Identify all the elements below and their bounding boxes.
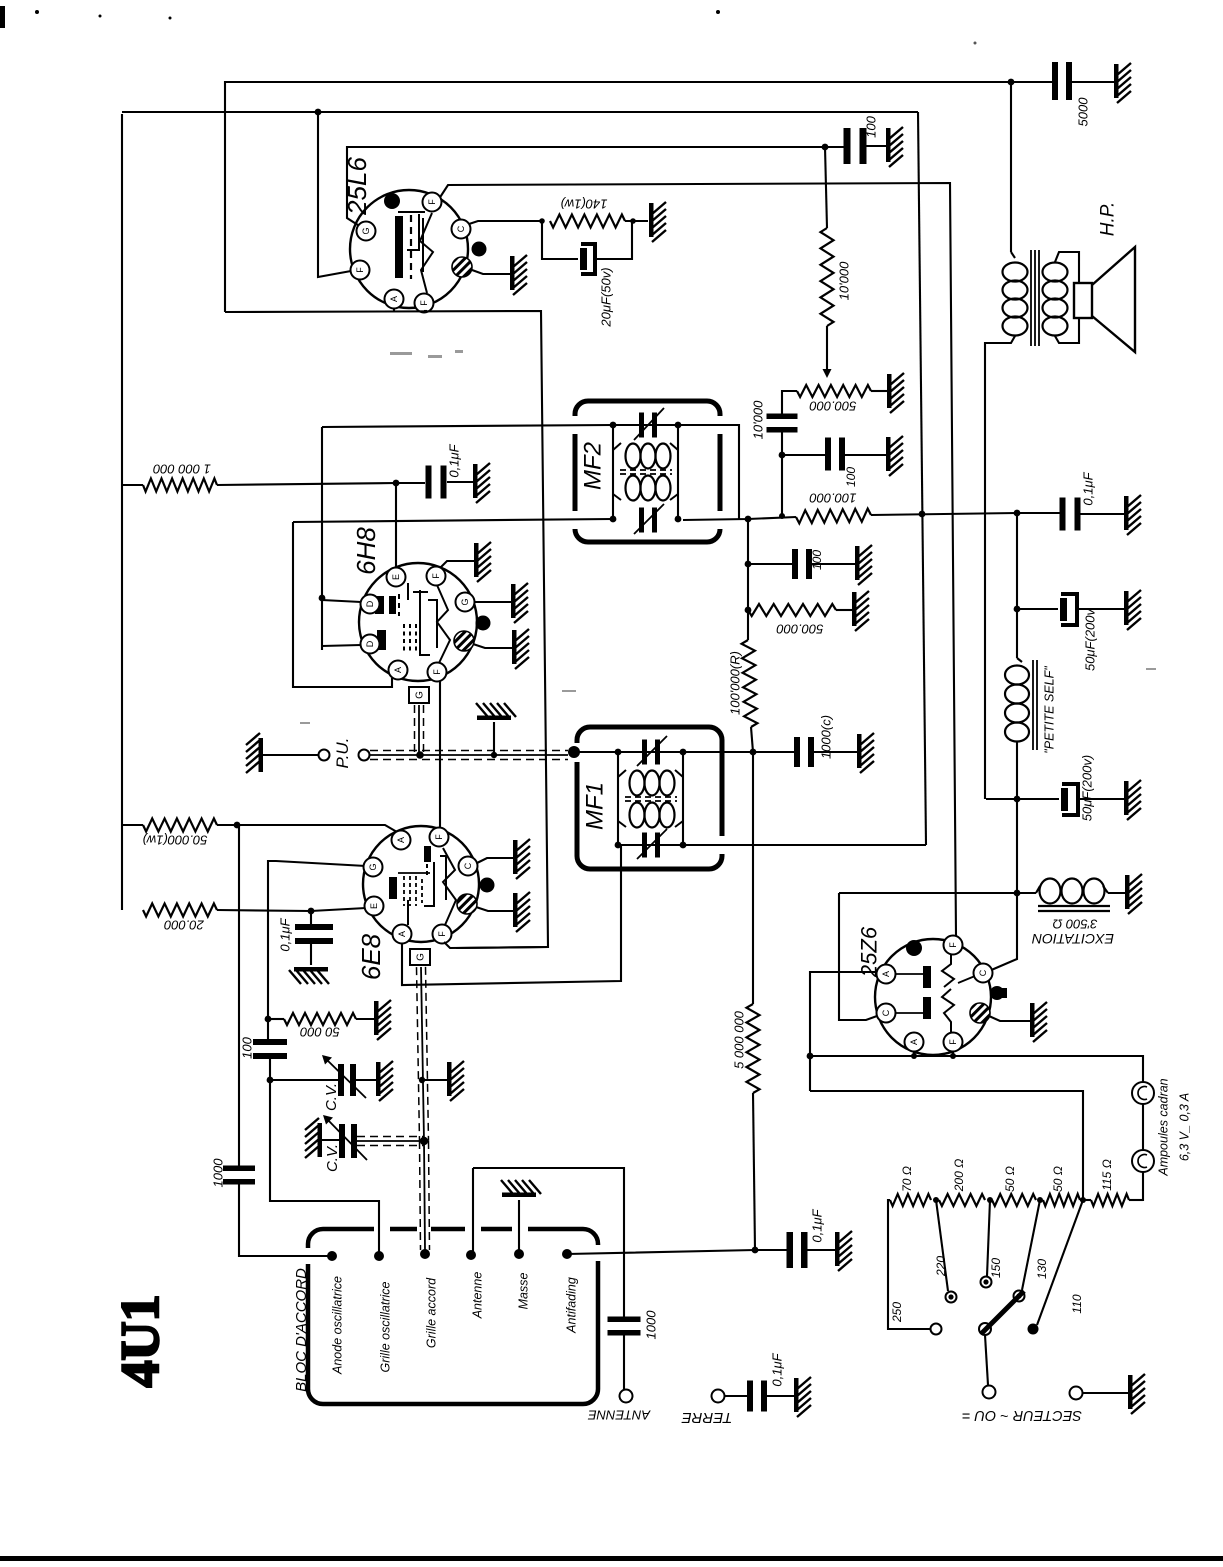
svg-text:F: F [437,931,447,937]
wire anode osc [239,1183,332,1256]
svg-text:50μF(200v: 50μF(200v [1083,607,1098,671]
tube 25Z6 envelope [875,939,991,1055]
node R140 right [630,218,636,224]
wire MF2 right vertical [677,425,679,519]
shielded wire horizontal [357,1140,424,1142]
svg-text:ANTENNE: ANTENNE [588,1408,651,1423]
ground 0,1uF 6E8 [289,967,329,984]
wire MF2 left vertical [612,425,614,519]
tube 25Z6 black dot [906,940,922,956]
tube 25L6 top bar [398,211,425,213]
tube 6E8 pin E [365,897,384,916]
tube 25Z6 cathode 1 [942,954,954,987]
tube 25Z6 pin A left [877,965,896,984]
tube 6H8 heater zigzag [437,585,450,663]
svg-text:A: A [909,1039,919,1045]
resistor 1.000.000 [143,479,217,492]
wire MF1 bottom line [618,844,926,846]
wire chain gap [1080,1199,1091,1201]
wire 25Z6 A bottom stub [913,1051,915,1056]
contact 110 [1028,1324,1039,1335]
wire OT sec top to speaker [1055,252,1079,283]
capacitor 0,1uF terre [747,1381,753,1412]
tube 6E8 grid dash top [426,864,428,877]
shielded wire 6E8 grid [421,967,424,1141]
capacitor MF2 trimmer bottom [639,508,644,533]
wire pot right to ground [871,390,887,392]
svg-text:F: F [355,267,365,273]
tube 6E8 pin F top [430,828,449,847]
resistor 10.000 vertical [821,228,834,326]
svg-text:F: F [419,300,429,306]
wire to cap 100 [825,146,845,148]
tube 6H8 pin A [389,661,408,680]
svg-text:1000(c): 1000(c) [819,715,834,759]
wire 20uF cap branch [542,221,578,259]
wire junction to cap 1000c [753,751,795,753]
wire anode B+ top line [225,82,1011,312]
ground R500k [852,591,869,631]
wire screen feed to 25Z6 F [955,935,957,937]
svg-text:100'000(R): 100'000(R) [728,651,743,715]
resistor 70 [890,1194,931,1206]
wire 5meg vertical lower [753,1093,755,1250]
capacitor 1000(c) [794,737,800,767]
node F-line junction [315,109,322,116]
svg-text:F: F [427,199,437,205]
ground excitation [1125,874,1142,914]
wire vertical B [918,112,926,845]
transformer OT core [1030,250,1032,346]
wire R140 right [625,220,648,222]
node shield gnd [491,752,497,758]
node MF2 bottom left [610,516,617,523]
contact 250 [931,1324,942,1335]
terminal antifading [562,1249,572,1259]
wire 25L6 grid line C [347,147,825,227]
svg-text:Masse: Masse [516,1273,530,1310]
svg-text:10'000: 10'000 [837,261,852,300]
svg-text:G: G [460,598,470,605]
wire 6H8 G to ground [474,601,511,603]
node R50000 branch [265,1016,272,1023]
tube 6H8 pin E [387,568,406,587]
ground shield P.U. [476,703,516,720]
resistor 20.000 [143,904,217,917]
tube 25Z6 hatched pin [970,1003,990,1023]
wire tap 220 [936,1200,948,1291]
wire 6H8 heater to 6E8 [439,681,441,828]
node MF1 top right [680,749,687,756]
wire junction to cap 0,1 [396,482,425,484]
svg-text:100.000: 100.000 [809,490,857,505]
tube 6H8 envelope [359,563,477,681]
tube 25L6 cathode [407,214,419,250]
node shielded junction [416,751,424,759]
svg-text:H.P.: H.P. [1098,202,1119,237]
inductor self core [1032,660,1034,750]
terminal terre [712,1390,725,1403]
node AVC at self [1014,510,1021,517]
svg-text:"PETITE SELF": "PETITE SELF" [1042,666,1056,754]
tube 6E8 pin F bottom [433,925,452,944]
svg-text:20.000: 20.000 [163,918,205,933]
tube 25L6 black dot right [472,242,487,257]
wire 25L6 F-left to line2 [318,112,351,277]
resistor 50b [1043,1194,1080,1206]
transformer MF2 secondary coil [613,494,621,500]
svg-text:6H8: 6H8 [351,527,381,575]
capacitor 50uF(200v) no1 [1061,594,1077,625]
wire tap 150 [987,1200,990,1276]
svg-text:200 Ω: 200 Ω [952,1159,966,1192]
wire 25L6 plate to R 140 [466,221,542,225]
node antenna column top [234,822,241,829]
pot wiper arrow [823,369,832,378]
wire 25L6 pin A stub [393,308,395,312]
node CV1 branch [267,1077,274,1084]
svg-text:0,1μF: 0,1μF [810,1208,825,1242]
wire B+ to decoupling cap [1011,81,1053,83]
capacitor 0,1uF 6H8 [426,466,432,499]
wire E pin drop [395,483,397,568]
svg-text:50 Ω: 50 Ω [1003,1166,1017,1192]
svg-text:50.000(1w): 50.000(1w) [142,833,207,848]
wire screen line D [435,183,956,936]
wire D pin stub [322,600,361,602]
ground 6E8 hatched [513,892,530,932]
resistor 115 [1091,1194,1129,1206]
tube 6E8 screen bracket [398,872,430,874]
wire 25Z6 hatched to ground [989,1016,1030,1021]
wire cap to ground [447,481,473,483]
svg-text:Antifading: Antifading [564,1277,578,1334]
svg-text:20μF(50v): 20μF(50v) [599,267,614,327]
tube 6E8 heater zigzag [443,848,456,925]
inductor petite self [1017,658,1022,662]
svg-text:C: C [456,225,466,232]
capacitor 0,1uF 6E8 [295,924,333,930]
ground pot [887,373,904,413]
transformer OT primary coil [1003,263,1028,282]
wire OT primary feed [1010,82,1012,252]
tube 25Z6 pin C right [974,964,993,983]
wire mains2 to ground [1083,1392,1128,1394]
terminal mains 1 [983,1386,996,1399]
wire cap1000 up [238,825,240,1167]
capacitor 5000 top right [1052,62,1058,100]
wire 6E8 G line [268,861,366,1041]
wire F bottom join [424,310,427,312]
svg-text:500.000: 500.000 [776,622,824,637]
node A bottom [911,1053,917,1059]
svg-text:110: 110 [1070,1294,1084,1313]
node junction on B+ line [1008,79,1015,86]
svg-text:A: A [881,971,891,977]
wire cap100 junction down [825,147,827,228]
svg-text:140(1w): 140(1w) [561,196,608,211]
wire R50k stub [122,824,143,826]
tube 25Z6 link Cright [958,976,975,983]
wire heater bus [810,1056,1143,1082]
capacitor 100 (second) [825,438,831,471]
svg-text:50 000: 50 000 [299,1025,340,1040]
svg-text:0,1μF: 0,1μF [447,443,462,477]
svg-text:P.U.: P.U. [333,738,352,769]
wire excitation to ground [1108,892,1125,894]
svg-text:1000: 1000 [211,1158,226,1188]
wire 25Z6 anode frame [839,893,877,1020]
transformer OT secondary coil [1043,263,1068,282]
svg-text:G: G [416,953,427,961]
wire cap100-2 to ground [844,454,886,456]
ground 50uF-2 [1124,780,1141,820]
tube 6E8 black dot [480,878,495,893]
capacitor 10'000 series [767,414,798,420]
tube 25Z6 G black pin [990,986,1004,1000]
tube 6E8 pin A top [392,831,411,850]
tube 25L6 pin F top [423,193,442,212]
wire terre to cap [724,1395,748,1397]
wire 6E8 hatched to ground [476,907,513,911]
tube 6E8 grid dashes [403,876,405,906]
node junction cap 100 [822,144,829,151]
tube 6E8 plates mid [389,877,397,899]
bloc d'accord box [323,1227,583,1232]
ground cap100-3 [855,545,872,585]
node MF1 bottom left [615,842,622,849]
svg-text:Ampoules cadran: Ampoules cadran [1156,1078,1170,1176]
wire 5meg vertical upper [752,752,754,1004]
speaker H.P. horn [1092,247,1135,352]
wire cap100g down [270,1057,379,1251]
shielded wire 6H8 grid drop [418,705,420,753]
ground 6H8 G [511,583,528,623]
transformer MF2 core [620,469,672,471]
ground CV2 [305,1118,322,1158]
svg-text:SECTEUR ~ OU =: SECTEUR ~ OU = [962,1407,1082,1423]
node tap 110 junction [1080,1197,1086,1203]
svg-text:Grille accord: Grille accord [424,1277,438,1348]
svg-text:50μF(200v): 50μF(200v) [1080,755,1095,821]
tube 25Z6 link C2 [895,1012,923,1014]
transformer MF1 secondary coil [618,821,626,827]
transformer OT primary hook top [1011,252,1015,258]
tube 25Z6 cathode 2 [942,989,954,1033]
ground top right [1114,63,1131,103]
resistor 500.000 no2 [748,604,836,616]
ground for cap 100 [886,127,903,167]
tube 25L6 pin F left [351,261,370,280]
svg-text:F: F [434,834,444,840]
node MF2 top left [610,422,617,429]
wire terre cap to ground [766,1395,794,1397]
wire shield gnd stem 2 [422,1079,447,1081]
ground 6E8 C [513,839,530,879]
svg-text:G: G [368,863,378,870]
svg-text:500.000: 500.000 [809,398,857,413]
svg-text:4U1: 4U1 [110,1295,170,1388]
wire antifading line [567,1250,788,1254]
terminal grille osc [374,1251,384,1261]
wire CV1 to ground [356,1079,376,1081]
node chain top [745,516,752,523]
wire grid return 1meg line [122,484,143,486]
inductor excitation [1036,886,1040,893]
wire AVC cap to ground [1079,513,1124,515]
ground 0,1uF 6H8 [473,463,490,503]
svg-text:F: F [431,573,441,579]
wire antifading cap to ground [806,1249,835,1251]
smudge marks [300,350,1156,724]
terminal P.U. 2 [359,750,370,761]
terminal antenne [620,1390,633,1403]
svg-text:A: A [389,296,399,302]
wire tap 250 [888,1200,930,1329]
wire heater line 2 [122,111,918,113]
wire MF1 top line [578,751,753,753]
svg-text:0,1μF: 0,1μF [278,917,293,951]
svg-text:C.V.: C.V. [324,1144,341,1172]
wire excitation line [839,892,1036,894]
wire 6E8 C to ground [477,858,513,863]
capacitor MF2 trimmer top [639,413,644,438]
wire 6H8 plate line [321,427,323,650]
wire lamp to chain [1132,1172,1143,1200]
resistor 50 000 [284,1013,356,1025]
wire MF1 right vertical [682,752,684,845]
capacitor 100 grid [253,1039,287,1045]
svg-text:MF2: MF2 [579,442,606,490]
wire G branch stub [268,1018,284,1020]
ground CV1 [376,1061,393,1101]
arrow C.V.2 [326,1118,367,1160]
wire P.U. ground link [263,754,318,756]
svg-text:1 000 000: 1 000 000 [152,461,211,476]
svg-text:E: E [369,903,379,909]
ground mains [1128,1374,1145,1414]
ground 6H8 F [474,542,491,582]
wire 6E8 F bottom to heater line [444,942,548,948]
wire masse up [518,1200,520,1254]
wire cap 100 to ground [865,145,886,147]
node vert joins AVC line [779,513,785,519]
tube 6H8 triode plate [428,600,437,648]
wire AVC line [683,517,796,520]
svg-text:70 Ω: 70 Ω [900,1166,914,1192]
terminal masse [514,1249,524,1259]
wire antenna lead 2 [623,1335,625,1389]
wire antenna lead [473,1168,624,1318]
wire 6H8 hatched to ground [473,644,512,648]
shielded wire P.U. to MF1 [370,754,568,756]
node MF1 bottom right [680,842,687,849]
wire R50k to 6E8 A [217,825,397,832]
svg-text:220: 220 [934,1256,948,1277]
wire OT sec bottom to speaker [1055,318,1079,343]
svg-text:D: D [365,600,375,607]
svg-text:Grille oscillatrice: Grille oscillatrice [378,1281,392,1372]
wire lamp link [1142,1104,1144,1150]
svg-text:5000: 5000 [1076,97,1091,127]
wire 6H8 box top / MF2 bottom line [293,519,613,522]
speaker H.P. coil box [1074,283,1092,318]
terminal MF1 shield blob [568,746,580,758]
wire 25L6 hatched pin to ground [472,270,510,274]
node tap 130 [1037,1197,1043,1203]
tube 6H8 hatched pin [454,631,474,651]
svg-text:6,3 V_ 0,3 A: 6,3 V_ 0,3 A [1177,1093,1191,1161]
potentiometer 500.000 [797,385,871,397]
node MF2 bottom right [675,516,682,523]
svg-text:10'000: 10'000 [751,400,766,439]
wire 50uF-2 to ground [1078,798,1124,800]
svg-text:BLOC D'ACCORD: BLOC D'ACCORD [293,1268,310,1392]
svg-text:C: C [978,969,988,976]
terminal P.U. 1 [319,750,330,761]
node tap 150 [987,1197,993,1203]
ground cap1000c [857,733,874,773]
wire left border [121,114,123,910]
svg-text:G: G [361,227,371,234]
tube 25Z6 pin F top [944,936,963,955]
svg-text:D: D [365,640,375,647]
wire CV1 line [270,1079,338,1081]
ground 50uF-1 [1124,590,1141,630]
tube 6E8 pin A bottom [393,925,412,944]
tube 6H8 grid dashes [398,594,400,616]
capacitor 0,1uF (AVC) [1060,498,1066,531]
wire self column upper [1016,513,1018,658]
wire self column to excitation [989,799,1017,971]
capacitor C.V.2 [339,1124,345,1158]
capacitor MF1 trimmer top [642,740,647,765]
tube 6E8 grid cap square [410,949,430,965]
svg-text:150: 150 [989,1258,1003,1278]
svg-text:25L6: 25L6 [342,157,372,216]
svg-text:100: 100 [240,1036,255,1058]
wire CV2 ground link [322,1139,339,1141]
tube 25Z6 pin A bottom [905,1033,924,1052]
tube 6H8 cathode T [407,583,409,600]
wire 25Z6 F bottom stub [952,1051,954,1056]
transformer MF1 core [625,796,677,798]
node 6H8 grid cap junction [393,480,400,487]
svg-text:Anode oscillatrice: Anode oscillatrice [330,1276,344,1375]
capacitor 20uF(50v) electrolytic [581,244,595,274]
transformer MF2 box [588,399,707,404]
wire R50000 to ground [356,1018,374,1020]
tube 6H8 pin F top [427,567,446,586]
tube 6H8 grid cap square [409,687,429,703]
resistor 50.000(1w) [143,819,217,832]
wire grille osc drop [378,1251,380,1256]
wire R to junction [751,727,753,752]
tube 6H8 black dot [476,616,491,631]
svg-text:MF1: MF1 [581,782,608,830]
svg-text:100: 100 [864,115,879,137]
tube 6E8 hatched pin [457,894,477,914]
wire to 50uF-1 [1017,608,1058,610]
terminal mains 2 [1070,1387,1083,1400]
svg-text:250: 250 [890,1302,904,1323]
wire AVC line right [871,513,1061,515]
node antifading junction [752,1247,759,1254]
svg-text:EXCITATION: EXCITATION [1031,931,1114,947]
node 6H8 D junction [319,595,326,602]
svg-text:C: C [881,1009,891,1016]
ground masse [501,1180,541,1197]
